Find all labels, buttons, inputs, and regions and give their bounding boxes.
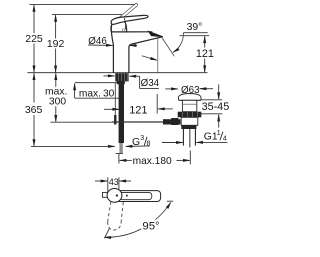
extension line: top of raised lever (225 ref) [30, 4, 136, 6]
shank collar below mounting nut [117, 81, 125, 84]
lever (top view inner) [120, 192, 152, 199]
lever handle at rest [111, 15, 148, 24]
max.180 right extension tick [189, 151, 191, 165]
drain clamp bar [181, 125, 196, 129]
pop-up waste flange (D63) [178, 94, 201, 101]
hose end cap [116, 152, 123, 154]
svg-text:3: 3 [140, 135, 144, 142]
cartridge dome [111, 24, 113, 32]
raised lever position (thin outline) [115, 3, 138, 22]
swivel lever dashed outline right [121, 202, 123, 222]
svg-text:G: G [132, 137, 140, 148]
drain locking nut (dark, slitted) [178, 112, 202, 118]
faucet body right edge into spout underside [129, 37, 162, 73]
body circle (top view) [107, 189, 122, 203]
dimension 225 vertical line with arrows [33, 5, 35, 33]
svg-text:1: 1 [217, 130, 221, 137]
dimension 121 right vertical with arrows [204, 36, 206, 47]
spout tip wedge (aerator) [149, 31, 164, 36]
svg-text:Ø34: Ø34 [141, 78, 160, 89]
spout body (top view) [114, 191, 161, 202]
43 extension ticks [107, 177, 109, 192]
flange seat line [179, 99, 201, 101]
spout height reference tick [180, 35, 210, 37]
water stream vertical line [157, 37, 159, 73]
drain neck body [182, 100, 196, 111]
flange bottom reference line [201, 99, 222, 101]
dome detail ticks [122, 28, 124, 31]
plug rod inside tailpipe [189, 129, 191, 148]
95 deg reference tick bottom left [105, 229, 110, 239]
95 deg arc with arrows [104, 202, 171, 237]
95 deg reference tick top right [167, 200, 173, 202]
mounting deck line [27, 72, 207, 74]
svg-text:Ø63: Ø63 [181, 85, 200, 96]
pop-up rod vertical [114, 83, 116, 116]
D63 left arrow [165, 88, 178, 90]
pop-up rod stub (top view) [102, 192, 107, 197]
dimension max.300 vertical line with arrows [55, 73, 57, 87]
dimension 121 horizontal arrows [104, 108, 119, 110]
threaded shank below deck [119, 81, 124, 143]
horizontal pop-up linkage rod [112, 121, 163, 123]
svg-text:300: 300 [49, 97, 66, 108]
svg-text:121: 121 [196, 48, 214, 60]
spout top edge [111, 31, 152, 33]
svg-text:Ø46: Ø46 [88, 36, 107, 47]
svg-text:95°: 95° [142, 221, 159, 233]
flexible hose lower part [119, 143, 122, 153]
G3/8 leader arrow pointing left at hose end [126, 145, 150, 148]
stream direction arrow [142, 56, 157, 60]
swivel lever dashed outline left [108, 202, 111, 222]
max.30 underline [75, 97, 119, 99]
extension tick below deck at stream line [156, 94, 158, 114]
label 95 deg [141, 220, 160, 231]
swivel lever dashed cap [108, 222, 121, 230]
svg-text:4: 4 [223, 135, 227, 142]
rod clamp knob left of drain [171, 118, 178, 125]
base mounting hardware below deck (dark, slitted) [115, 73, 128, 81]
extension line: top of lever at rest (192 ref) [52, 14, 122, 16]
svg-text:8: 8 [147, 141, 151, 148]
hose-end reference line (365 bottom) with arrow [31, 145, 115, 147]
basin underside reference line [198, 113, 223, 115]
lever front joint line [124, 18, 125, 30]
svg-text:365: 365 [25, 104, 43, 116]
linkage rod thick end [163, 119, 181, 124]
svg-text:225: 225 [25, 33, 43, 45]
svg-text:192: 192 [47, 38, 65, 50]
deck underside line (max.30 ref) [75, 82, 119, 84]
drain body below nut [181, 117, 198, 125]
pull-rod depth reference line (max.300 bottom) [51, 121, 164, 123]
svg-text:max.180: max.180 [133, 156, 172, 167]
lever dot [126, 195, 128, 197]
faucet body column left edge and dome left [111, 23, 114, 72]
svg-text:43: 43 [109, 176, 119, 187]
svg-text:35-45: 35-45 [202, 101, 230, 113]
diameter 34 label riser and underline [139, 76, 141, 88]
D63 right arrow [200, 88, 213, 90]
max.30 leader arrow up to deck underside [74, 83, 76, 98]
svg-text:39°: 39° [187, 22, 203, 33]
39 deg ray [162, 37, 175, 56]
max.180 left extension tick [118, 153, 120, 163]
pop-up rod adjuster cross [114, 115, 116, 125]
max.180 dimension arrows [120, 159, 132, 161]
svg-text:121: 121 [129, 104, 147, 116]
diameter 34 arrows at base [104, 75, 115, 77]
39 deg arc with arrow [173, 33, 184, 53]
dimension 35-45 vertical with arrows [218, 84, 220, 99]
diameter 46 arrows at body [88, 44, 113, 46]
43 dimension arrows [95, 180, 107, 182]
svg-text:max. 30: max. 30 [79, 88, 115, 99]
arrow pointing right at tailpipe [162, 142, 183, 144]
dimension 192 vertical line with arrows [55, 15, 57, 39]
pivot dot [116, 194, 118, 196]
G1 1/4 leader arrow [196, 141, 227, 143]
dimension 365 vertical line with arrows [33, 73, 35, 102]
drain tailpipe walls [182, 129, 184, 146]
